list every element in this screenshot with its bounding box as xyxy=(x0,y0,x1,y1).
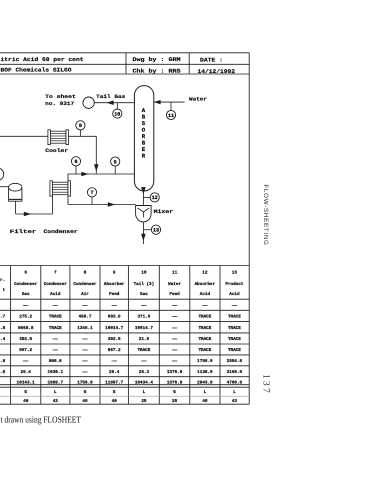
svg-text:G: G xyxy=(84,390,87,395)
svg-text:——: —— xyxy=(81,370,88,375)
svg-text:——: —— xyxy=(171,337,178,342)
svg-text:——: —— xyxy=(22,359,29,364)
svg-text:Feed: Feed xyxy=(169,291,180,297)
svg-text:Chk by : RRS: Chk by : RRS xyxy=(133,67,182,74)
svg-text:137: 137 xyxy=(260,374,270,395)
svg-text:6: 6 xyxy=(74,159,77,165)
svg-text:10014.7: 10014.7 xyxy=(105,326,123,331)
svg-text:43: 43 xyxy=(232,399,238,404)
svg-text:Condenser: Condenser xyxy=(44,229,78,235)
svg-text:Acid: Acid xyxy=(229,291,240,297)
svg-text:Feed: Feed xyxy=(109,291,120,297)
svg-text:G: G xyxy=(24,390,27,395)
svg-text:——: —— xyxy=(22,303,29,308)
svg-text:14/12/1992: 14/12/1992 xyxy=(198,68,236,75)
svg-text:40: 40 xyxy=(202,399,208,404)
svg-text:L: L xyxy=(54,390,57,395)
svg-text:967.2: 967.2 xyxy=(19,348,32,353)
svg-text:8.8: 8.8 xyxy=(0,326,6,331)
svg-text:Gas: Gas xyxy=(140,292,148,297)
svg-text:Acid: Acid xyxy=(200,291,211,297)
svg-text:13: 13 xyxy=(153,228,159,234)
svg-text:8.4: 8.4 xyxy=(0,337,6,342)
svg-text:TRACE: TRACE xyxy=(228,337,241,342)
svg-text:Dwg by : GRM: Dwg by : GRM xyxy=(133,56,182,63)
svg-text:9: 9 xyxy=(114,159,117,165)
svg-text:1138.0: 1138.0 xyxy=(197,370,213,375)
svg-text:2943.8: 2943.8 xyxy=(197,380,213,385)
svg-text:FLOW-SHEETING: FLOW-SHEETING xyxy=(262,184,269,245)
svg-text:29.4: 29.4 xyxy=(21,370,32,375)
svg-text:10: 10 xyxy=(114,111,120,117)
svg-text:10: 10 xyxy=(141,270,147,275)
svg-text:469.7: 469.7 xyxy=(79,315,92,320)
svg-text:L: L xyxy=(204,390,207,395)
svg-text:TRACE: TRACE xyxy=(198,326,211,331)
svg-text:itric Acid 60 per cent: itric Acid 60 per cent xyxy=(1,56,84,63)
svg-text:Tail (3): Tail (3) xyxy=(134,281,155,287)
svg-text:——: —— xyxy=(171,348,178,353)
svg-text:2554.6: 2554.6 xyxy=(227,359,243,364)
svg-text:8: 8 xyxy=(84,270,87,275)
svg-text:4700.6: 4700.6 xyxy=(227,380,243,385)
svg-text:8668.8: 8668.8 xyxy=(18,326,34,331)
svg-text:——: —— xyxy=(52,337,59,342)
svg-text:25: 25 xyxy=(172,399,178,404)
svg-text:——: —— xyxy=(171,326,178,331)
svg-text:1756.8: 1756.8 xyxy=(77,380,93,385)
svg-text:——: —— xyxy=(111,303,118,308)
svg-text:Air: Air xyxy=(81,291,89,297)
svg-text:——: —— xyxy=(201,303,208,308)
svg-text:Water: Water xyxy=(189,96,207,102)
svg-text:G: G xyxy=(113,390,116,395)
svg-text:——: —— xyxy=(231,303,238,308)
svg-text:TRACE: TRACE xyxy=(198,315,211,320)
svg-text:——: —— xyxy=(52,303,59,308)
svg-text:t drawn using FLOSHEET: t drawn using FLOSHEET xyxy=(1,414,82,424)
svg-text:——: —— xyxy=(81,348,88,353)
svg-text:1786.0: 1786.0 xyxy=(197,359,213,364)
svg-text:1346.1: 1346.1 xyxy=(77,326,93,331)
svg-text:Condenser: Condenser xyxy=(73,281,97,287)
svg-text:40: 40 xyxy=(82,399,88,404)
svg-text:11097.7: 11097.7 xyxy=(105,380,123,385)
svg-text:12: 12 xyxy=(152,195,158,201)
svg-text:G: G xyxy=(173,390,176,395)
svg-text:——: —— xyxy=(140,359,147,364)
svg-text:L: L xyxy=(143,390,146,395)
svg-text:Tail Gas: Tail Gas xyxy=(96,94,125,100)
svg-text:——: —— xyxy=(81,359,88,364)
svg-text:8: 8 xyxy=(79,123,82,129)
svg-text:392.5: 392.5 xyxy=(19,337,32,342)
svg-text:21.9: 21.9 xyxy=(139,337,150,342)
svg-text:Condenser: Condenser xyxy=(14,281,38,287)
svg-text:40: 40 xyxy=(23,399,29,404)
svg-text:Filter: Filter xyxy=(10,229,37,235)
svg-text:To sheet: To sheet xyxy=(45,94,76,100)
svg-text:13: 13 xyxy=(232,270,238,275)
svg-text:Product: Product xyxy=(225,281,243,287)
svg-text:——: —— xyxy=(52,348,59,353)
svg-text:Acid: Acid xyxy=(50,291,61,297)
svg-text:.7: .7 xyxy=(0,315,6,320)
svg-text:2.8: 2.8 xyxy=(0,359,6,364)
svg-text:TRACE: TRACE xyxy=(228,326,241,331)
svg-text:371.5: 371.5 xyxy=(137,315,150,320)
svg-text:——: —— xyxy=(171,359,178,364)
svg-text:Cooler: Cooler xyxy=(45,148,68,154)
svg-text:12: 12 xyxy=(202,270,208,275)
svg-text:43: 43 xyxy=(53,399,59,404)
svg-text:7: 7 xyxy=(54,270,57,275)
svg-text:BOF Chemicals SILGO: BOF Chemicals SILGO xyxy=(1,67,73,74)
svg-text:1039.1: 1039.1 xyxy=(48,370,64,375)
svg-text:TRACE: TRACE xyxy=(49,315,62,320)
svg-text:——: —— xyxy=(81,337,88,342)
svg-text:no. 9317: no. 9317 xyxy=(45,101,74,107)
svg-text:3160.0: 3160.0 xyxy=(227,370,243,375)
svg-text:TRACE: TRACE xyxy=(228,348,241,353)
svg-text:TRACE: TRACE xyxy=(49,326,62,331)
svg-text:10014.7: 10014.7 xyxy=(135,326,153,331)
svg-text:275.2: 275.2 xyxy=(19,315,32,320)
svg-text:.9: .9 xyxy=(0,370,6,375)
svg-text:7: 7 xyxy=(90,190,93,196)
svg-text:DATE :: DATE : xyxy=(200,56,223,63)
svg-text:10434.4: 10434.4 xyxy=(135,380,153,385)
svg-text:r.: r. xyxy=(0,278,5,283)
svg-text:1869.7: 1869.7 xyxy=(48,380,64,385)
svg-text:1376.9: 1376.9 xyxy=(167,370,183,375)
svg-text:——: —— xyxy=(81,303,88,308)
svg-text:——: —— xyxy=(140,303,147,308)
svg-text:Water: Water xyxy=(168,282,181,287)
svg-text:TRACE: TRACE xyxy=(137,348,150,353)
svg-text:6: 6 xyxy=(24,270,27,275)
svg-text:26.3: 26.3 xyxy=(139,370,150,375)
svg-text:25: 25 xyxy=(141,399,147,404)
svg-text:Mixer: Mixer xyxy=(154,209,174,215)
svg-text:Condenser: Condenser xyxy=(44,281,68,287)
svg-text:11: 11 xyxy=(172,270,178,275)
svg-text:29.4: 29.4 xyxy=(109,370,120,375)
svg-text:L: L xyxy=(233,390,236,395)
svg-text:967.2: 967.2 xyxy=(108,348,121,353)
svg-text:TRACE: TRACE xyxy=(228,315,241,320)
svg-text:40: 40 xyxy=(112,399,118,404)
svg-text:TRACE: TRACE xyxy=(198,337,211,342)
svg-text:Absorber: Absorber xyxy=(104,281,125,287)
svg-text:11: 11 xyxy=(168,113,174,119)
svg-text:10143.1: 10143.1 xyxy=(17,380,35,385)
svg-text:1376.9: 1376.9 xyxy=(167,380,183,385)
svg-text:——: —— xyxy=(111,359,118,364)
svg-text:683.9: 683.9 xyxy=(108,315,121,320)
svg-text:t: t xyxy=(3,288,6,293)
svg-text:880.6: 880.6 xyxy=(49,359,62,364)
svg-text:9: 9 xyxy=(113,270,116,275)
svg-text:Gas: Gas xyxy=(22,292,30,297)
svg-text:TRACE: TRACE xyxy=(198,348,211,353)
svg-text:——: —— xyxy=(171,315,178,320)
svg-text:Absorber: Absorber xyxy=(195,281,216,287)
svg-text:392.5: 392.5 xyxy=(108,337,121,342)
svg-text:——: —— xyxy=(171,303,178,308)
